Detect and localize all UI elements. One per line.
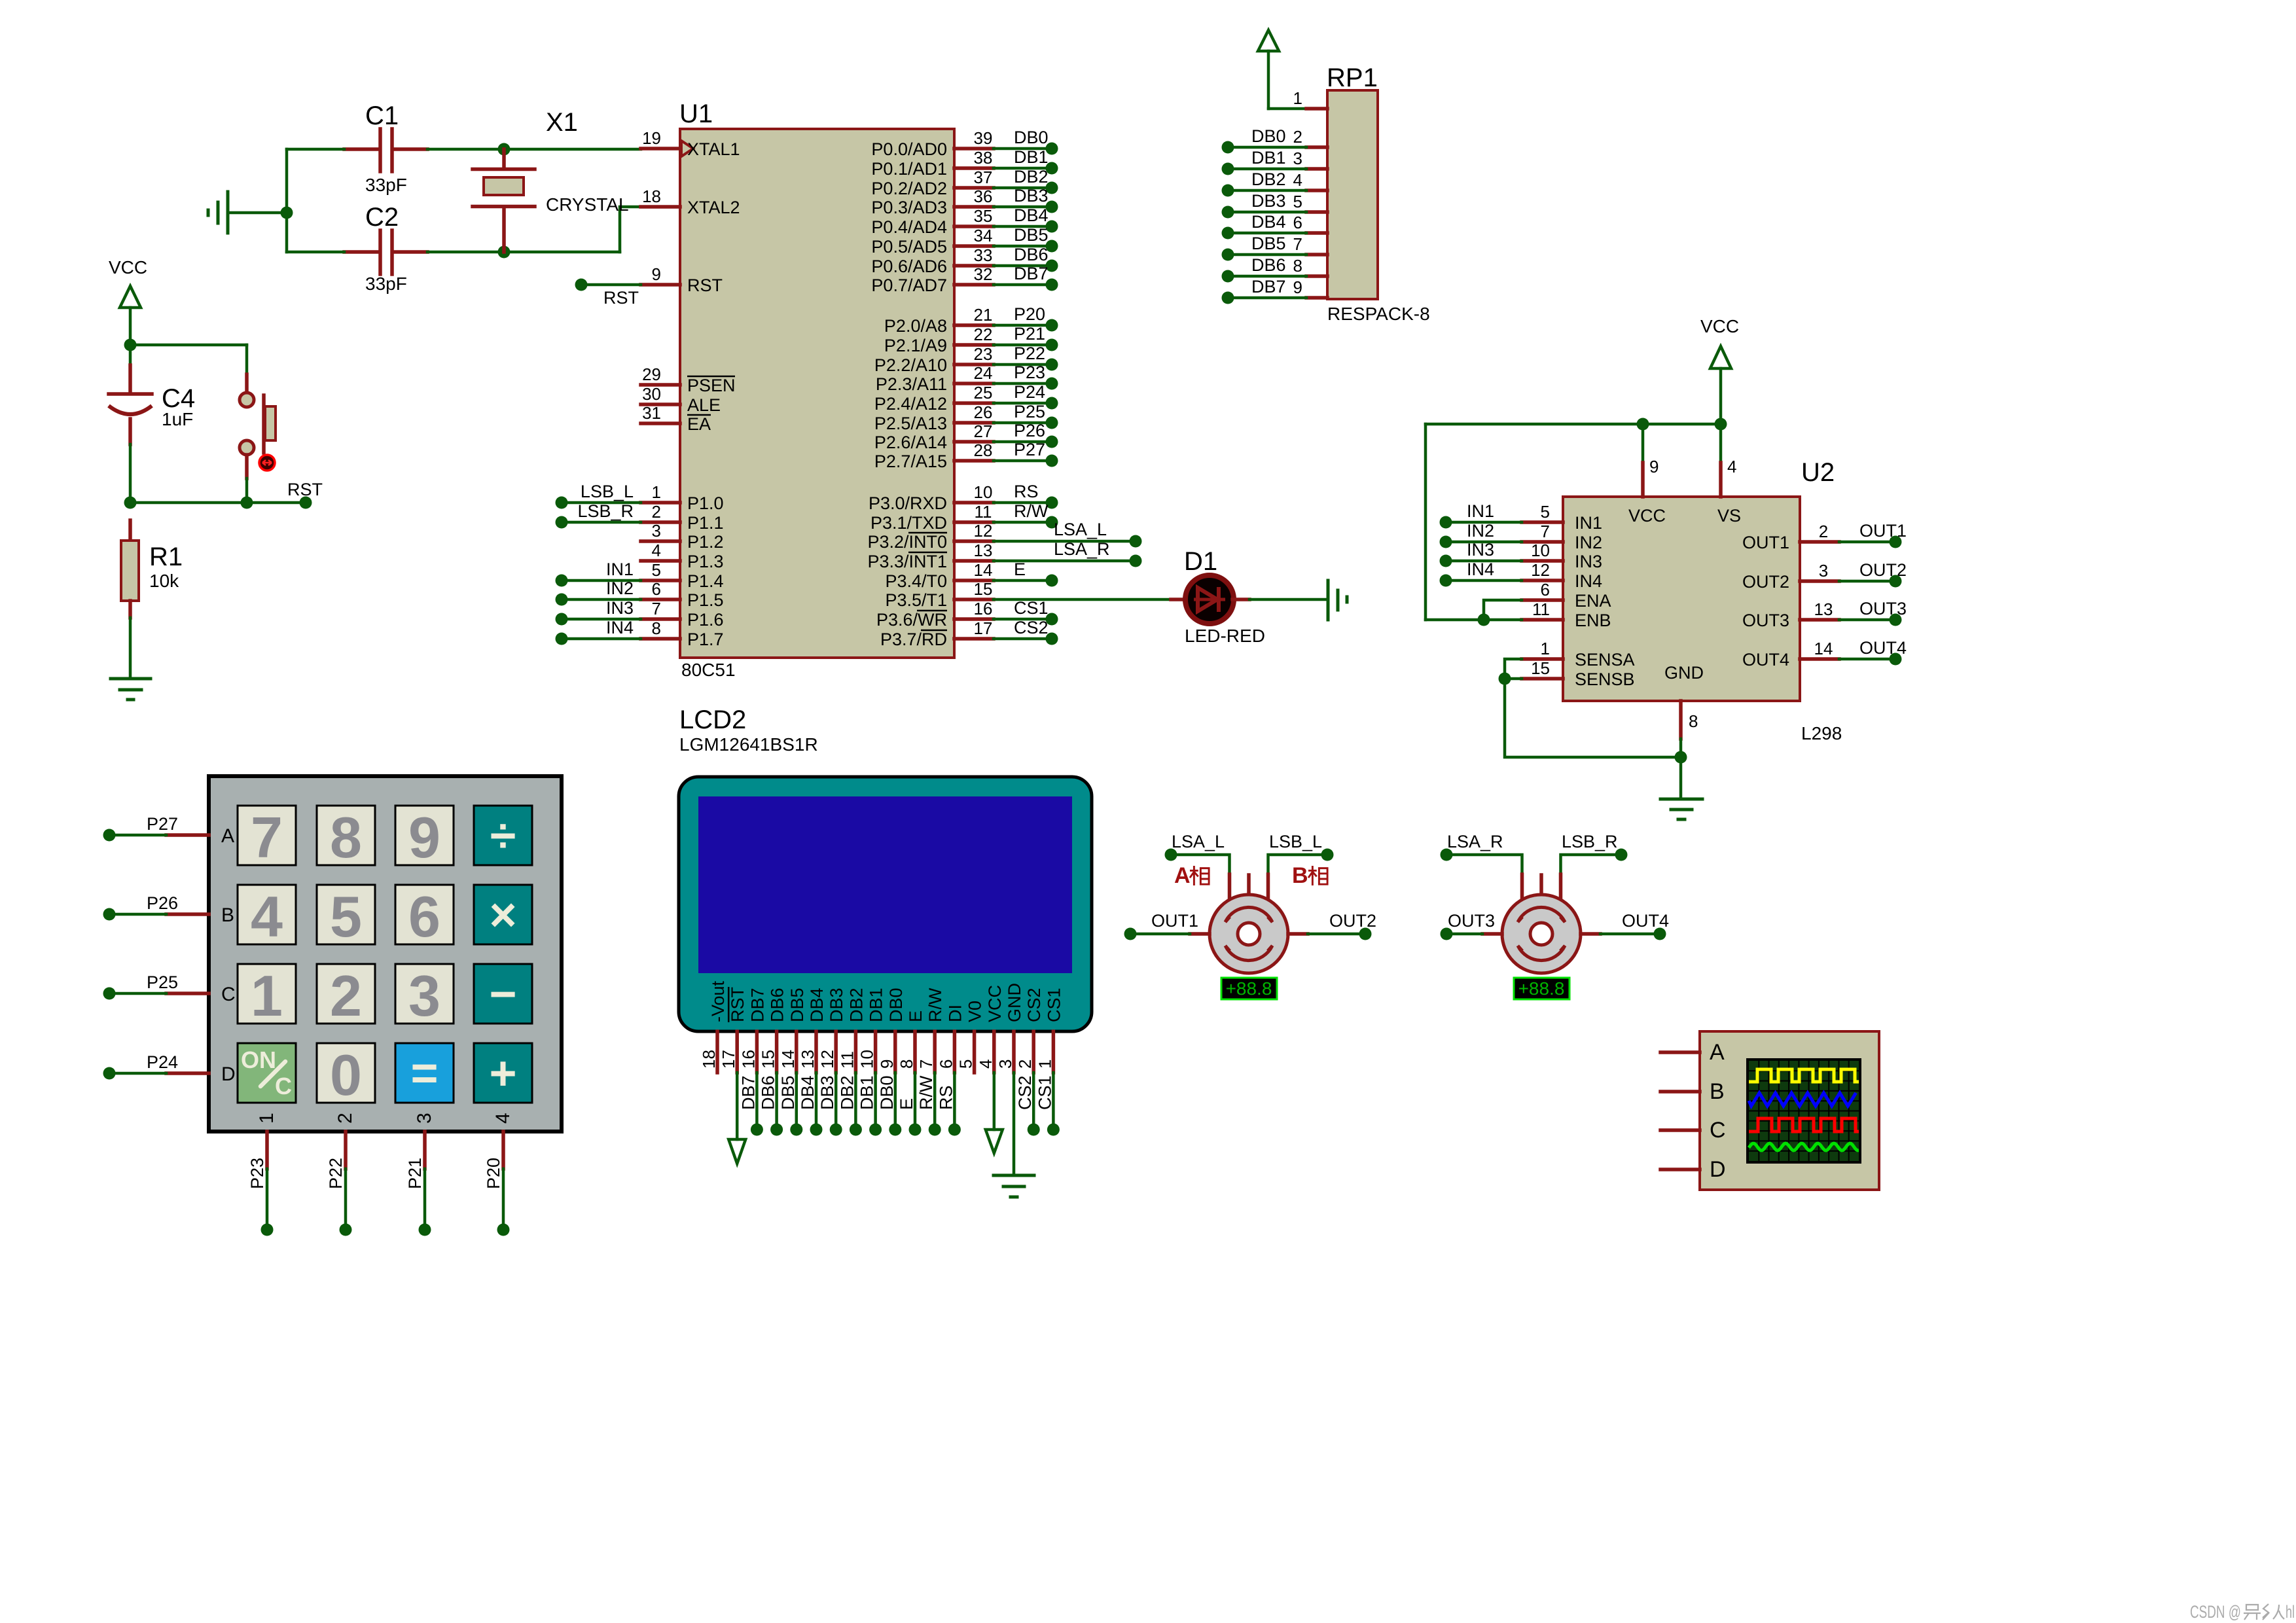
terminal P24 xyxy=(103,1067,116,1080)
svg-text:P1.3: P1.3 xyxy=(687,552,724,571)
U1 pin 37 P0.2/AD2 xyxy=(871,168,994,198)
wire LSA_L from U1 xyxy=(994,520,1136,541)
svg-text:P2.0/A8: P2.0/A8 xyxy=(884,316,947,336)
terminal P27 (U1 side) xyxy=(1046,455,1058,467)
terminal DB2 (LCD side) xyxy=(850,1124,862,1136)
LCD pin 1 CS1 xyxy=(1035,988,1064,1073)
U1 pin 35 P0.4/AD4 xyxy=(871,206,994,237)
svg-text:DB6: DB6 xyxy=(759,1075,778,1110)
wire P25 from U1 xyxy=(994,402,1047,423)
terminal P24 (U1 side) xyxy=(1046,397,1058,410)
svg-text:P1.2: P1.2 xyxy=(687,532,724,552)
svg-text:5: 5 xyxy=(652,560,661,580)
wire VCC to RP1 pin1 xyxy=(1268,107,1306,111)
label A-phase (A相) xyxy=(1174,863,1209,888)
wire LSA_R to motor right xyxy=(1446,855,1522,874)
svg-text:OUT3: OUT3 xyxy=(1742,611,1789,630)
svg-text:R/W: R/W xyxy=(925,988,945,1022)
wire R/W from U1 xyxy=(994,501,1049,522)
svg-text:10: 10 xyxy=(1531,541,1550,560)
wire IN2 to U1 xyxy=(562,579,641,599)
svg-text:P3.1/TXD: P3.1/TXD xyxy=(870,513,947,533)
svg-text:P3.7/RD: P3.7/RD xyxy=(880,630,947,649)
svg-text:P26: P26 xyxy=(1014,421,1045,440)
svg-text:4: 4 xyxy=(1293,170,1302,190)
terminal LSA_L xyxy=(1130,535,1142,548)
svg-text:26: 26 xyxy=(974,402,993,422)
svg-text:RS: RS xyxy=(936,1085,956,1110)
RP1 pin 3 xyxy=(1293,149,1327,169)
LCD pin 17 RST xyxy=(719,987,747,1073)
svg-text:P2.5/A13: P2.5/A13 xyxy=(874,414,947,433)
power VCC arrow (RP1) xyxy=(1258,30,1279,109)
U1 pin 22 P2.1/A9 xyxy=(884,325,994,355)
svg-text:5: 5 xyxy=(1541,502,1550,522)
wire P26 from U1 xyxy=(994,421,1047,442)
svg-text:2: 2 xyxy=(1293,127,1302,147)
svg-text:9: 9 xyxy=(652,264,661,284)
svg-text:DB1: DB1 xyxy=(1014,147,1049,167)
svg-text:3: 3 xyxy=(1819,561,1828,580)
terminal P20 xyxy=(497,1224,510,1236)
U1 pin 2 P1.1 xyxy=(641,502,724,533)
svg-text:P0.3/AD3: P0.3/AD3 xyxy=(871,198,947,217)
LCD pin 9 DB0 xyxy=(877,988,906,1073)
svg-text:LSA_L: LSA_L xyxy=(1054,520,1107,539)
U2 pin 5 IN1 xyxy=(1522,502,1602,533)
LCD pin 10 DB1 xyxy=(857,988,886,1073)
svg-text:C: C xyxy=(1710,1118,1726,1143)
wire OUT4 to motor right xyxy=(1600,911,1669,934)
svg-text:P2.2/A10: P2.2/A10 xyxy=(874,355,947,375)
svg-text:1: 1 xyxy=(652,482,661,502)
wire P24 from U1 xyxy=(994,382,1047,403)
svg-text:P0.5/AD5: P0.5/AD5 xyxy=(871,237,947,257)
RP1 pin 2 xyxy=(1293,127,1327,147)
power VCC (reset net) xyxy=(109,257,147,345)
svg-text:PSEN: PSEN xyxy=(687,376,736,395)
keypad key = xyxy=(395,1043,454,1103)
RP1 pin 4 xyxy=(1293,170,1327,190)
wire DB4 (LCD pin 13) xyxy=(798,1073,817,1130)
RP1 pin 7 xyxy=(1293,234,1327,255)
terminal P21 xyxy=(419,1224,431,1236)
U1 pin 15 P3.5/T1 xyxy=(885,579,994,610)
svg-text:DB7: DB7 xyxy=(747,988,767,1022)
U2 pin 3 OUT2 xyxy=(1742,561,1839,592)
U1 pin 16 P3.6/WR xyxy=(876,599,994,630)
svg-text:5: 5 xyxy=(330,884,362,949)
svg-text:P27: P27 xyxy=(1014,440,1045,459)
LCD pin 13 DB4 xyxy=(798,988,827,1073)
svg-text:12: 12 xyxy=(974,521,993,541)
LCD pin 6 DI xyxy=(936,1005,965,1073)
svg-text:15: 15 xyxy=(1531,658,1550,678)
svg-text:2: 2 xyxy=(1015,1060,1035,1069)
svg-text:C: C xyxy=(221,984,236,1005)
terminal OUT4 (U2 side) xyxy=(1890,653,1902,666)
svg-text:P25: P25 xyxy=(147,972,178,992)
svg-text:E: E xyxy=(906,1010,925,1022)
svg-text:CS1: CS1 xyxy=(1035,1075,1054,1110)
U1 pin 10 P3.0/RXD xyxy=(869,482,994,513)
svg-text:IN1: IN1 xyxy=(606,560,634,579)
wire DB5 to RP1 xyxy=(1228,234,1306,255)
svg-text:IN1: IN1 xyxy=(1575,513,1602,533)
speed display motor left (+88.8) xyxy=(1221,978,1277,999)
node VCC-pin4 junction xyxy=(1715,418,1727,431)
svg-text:2: 2 xyxy=(652,502,661,522)
svg-text:7: 7 xyxy=(251,805,283,870)
terminal RS (U1 side) xyxy=(1046,497,1058,509)
terminal IN4 (U2 side) xyxy=(1440,575,1452,587)
wire CS2 from U1 xyxy=(994,618,1049,639)
svg-text:P2.7/A15: P2.7/A15 xyxy=(874,452,947,471)
svg-text:X1: X1 xyxy=(546,108,578,137)
svg-text:DB6: DB6 xyxy=(768,988,787,1022)
U1 pin 8 P1.7 xyxy=(641,618,724,649)
U1 pin 7 P1.6 xyxy=(641,599,724,630)
svg-text:1: 1 xyxy=(1293,88,1302,108)
terminal P25 (U1 side) xyxy=(1046,417,1058,429)
svg-text:6: 6 xyxy=(936,1060,956,1069)
svg-text:CSDN @: CSDN @ xyxy=(2190,1602,2241,1622)
svg-text:3: 3 xyxy=(414,1113,435,1124)
svg-text:A: A xyxy=(1174,863,1191,888)
U2 pin 14 OUT4 xyxy=(1742,639,1839,669)
svg-text:33pF: 33pF xyxy=(365,175,407,195)
keypad key × xyxy=(474,885,532,944)
terminal DB7 (RP1 side) xyxy=(1222,292,1234,304)
svg-text:RST: RST xyxy=(728,987,747,1022)
svg-text:E: E xyxy=(1014,560,1026,579)
svg-text:L298: L298 xyxy=(1801,723,1842,743)
U2 pin 6 ENA xyxy=(1522,580,1611,611)
svg-text:10k: 10k xyxy=(149,571,179,591)
U1 pin 32 P0.7/AD7 xyxy=(871,264,994,295)
U1 pin 6 P1.5 xyxy=(641,579,724,610)
svg-text:P23: P23 xyxy=(1014,363,1045,382)
svg-text:LSA_R: LSA_R xyxy=(1054,539,1110,559)
speed display motor right (+88.8) xyxy=(1514,978,1570,999)
wire DB6 from U1 xyxy=(994,245,1049,266)
stepper motor left xyxy=(1190,874,1308,973)
svg-text:DB4: DB4 xyxy=(1251,212,1286,232)
svg-text:15: 15 xyxy=(759,1050,778,1069)
svg-text:DB3: DB3 xyxy=(817,1075,837,1110)
wire DB2 to RP1 xyxy=(1228,169,1306,190)
svg-text:1: 1 xyxy=(251,963,283,1028)
svg-text:V0: V0 xyxy=(965,1001,985,1022)
terminal OUT3 xyxy=(1441,928,1453,940)
svg-text:3: 3 xyxy=(408,963,440,1028)
svg-text:P3.2/INT0: P3.2/INT0 xyxy=(867,532,947,552)
svg-text:OUT3: OUT3 xyxy=(1448,911,1495,931)
wire P22 from U1 xyxy=(994,344,1047,365)
svg-text:8: 8 xyxy=(1293,256,1302,276)
wire DB2 from U1 xyxy=(994,167,1049,188)
svg-text:C1: C1 xyxy=(365,101,399,130)
svg-text:×: × xyxy=(489,889,516,942)
svg-text:IN3: IN3 xyxy=(1575,552,1602,571)
svg-text:ALE: ALE xyxy=(687,395,721,415)
wire IN4 to U2 xyxy=(1446,560,1522,580)
svg-text:DB6: DB6 xyxy=(1251,255,1286,275)
svg-text:10: 10 xyxy=(857,1050,877,1069)
svg-text:XTAL2: XTAL2 xyxy=(687,198,740,217)
terminal DB3 (LCD side) xyxy=(830,1124,842,1136)
wire DB5 (LCD pin 14) xyxy=(778,1073,798,1130)
LCD pin 8 E xyxy=(897,1010,925,1073)
keypad key 4 xyxy=(238,884,296,949)
U1 pin 34 P0.5/AD5 xyxy=(871,226,994,257)
terminal LSB_L xyxy=(556,497,568,509)
svg-text:11: 11 xyxy=(975,502,992,522)
svg-text:P20: P20 xyxy=(1014,304,1045,324)
svg-text:LSB_R: LSB_R xyxy=(1562,832,1618,851)
terminal P23 (U1 side) xyxy=(1046,378,1058,390)
terminal DB3 (RP1 side) xyxy=(1222,206,1234,219)
wire DB2 (LCD pin 11) xyxy=(837,1073,857,1130)
svg-text:P21: P21 xyxy=(405,1158,425,1189)
svg-text:U2: U2 xyxy=(1801,458,1835,487)
LCD pin 7 R/W xyxy=(916,988,945,1073)
keypad key ÷ xyxy=(474,806,532,865)
capacitor C2 xyxy=(344,230,427,274)
svg-text:ENB: ENB xyxy=(1575,611,1611,630)
LCD pin 18 -Vout xyxy=(699,980,728,1073)
svg-text:P27: P27 xyxy=(147,814,178,834)
terminal LSB_L xyxy=(1321,849,1334,861)
terminal arrow (LCD VCC) xyxy=(986,1073,1003,1153)
terminal LSB_R xyxy=(1615,849,1628,861)
svg-text:19: 19 xyxy=(642,128,661,148)
U2 pin 9 VCC xyxy=(1628,457,1666,526)
svg-text:33: 33 xyxy=(974,245,993,265)
svg-text:DB3: DB3 xyxy=(827,988,846,1022)
svg-text:P2.3/A11: P2.3/A11 xyxy=(876,374,947,394)
node button-RST junction xyxy=(241,497,253,509)
svg-text:8: 8 xyxy=(897,1060,916,1069)
wire DB1 to RP1 xyxy=(1228,148,1306,169)
terminal P22 (U1 side) xyxy=(1046,359,1058,371)
svg-text:9: 9 xyxy=(408,805,440,870)
wire P27 from U1 xyxy=(994,440,1047,461)
U1 80C51 body xyxy=(680,129,954,658)
svg-text:RST: RST xyxy=(287,480,323,499)
U1 pin 5 P1.4 xyxy=(641,560,724,591)
terminal DB6 (U1 side) xyxy=(1046,260,1058,272)
terminal OUT4 xyxy=(1654,928,1666,940)
svg-text:=: = xyxy=(410,1048,438,1100)
svg-text:12: 12 xyxy=(1531,560,1550,580)
svg-text:25: 25 xyxy=(974,383,993,402)
svg-text:P26: P26 xyxy=(147,893,178,913)
svg-text:DB1: DB1 xyxy=(857,1075,877,1110)
svg-text:IN2: IN2 xyxy=(1575,533,1602,552)
terminal R/W (U1 side) xyxy=(1046,516,1058,529)
svg-text:DB4: DB4 xyxy=(807,988,827,1022)
wire SENSB xyxy=(1505,677,1522,681)
U1 pin 39 P0.0/AD0 xyxy=(871,128,994,159)
U1 pin 14 P3.4/T0 xyxy=(885,560,994,591)
terminal DB0 (U1 side) xyxy=(1046,143,1058,155)
svg-text:P0.2/AD2: P0.2/AD2 xyxy=(871,179,947,198)
terminal P26 (U1 side) xyxy=(1046,436,1058,448)
U2 pin 10 IN3 xyxy=(1522,541,1602,571)
LCD2 screen xyxy=(698,796,1072,973)
U2 pin 12 IN4 xyxy=(1522,560,1602,591)
pin XTAL1 clock marker xyxy=(681,141,693,156)
svg-text:P2.1/A9: P2.1/A9 xyxy=(884,336,947,355)
wire crystal left rail xyxy=(285,149,289,252)
keypad key 9 xyxy=(395,805,454,870)
svg-text:E: E xyxy=(897,1098,916,1110)
svg-text:OUT2: OUT2 xyxy=(1742,572,1789,592)
U2 L298 body xyxy=(1563,497,1800,701)
U2 pin 4 VS xyxy=(1717,457,1741,526)
svg-text:8: 8 xyxy=(652,618,661,638)
terminal OUT2 (U2 side) xyxy=(1890,575,1902,588)
U1 pin 38 P0.1/AD1 xyxy=(871,148,994,179)
svg-text:6: 6 xyxy=(408,884,440,949)
svg-text:R1: R1 xyxy=(149,543,183,571)
U2 pin 7 IN2 xyxy=(1522,522,1602,552)
wire DB7 to RP1 xyxy=(1228,277,1306,298)
U1 pin 26 P2.5/A13 xyxy=(874,402,994,433)
terminal arrow (LCD RST) xyxy=(728,1073,745,1164)
terminal P26 xyxy=(103,908,116,921)
svg-text:LSB_L: LSB_L xyxy=(1269,832,1322,851)
svg-text:A: A xyxy=(221,825,234,847)
ground (LCD GND pin) xyxy=(994,1073,1034,1197)
svg-text:P1.1: P1.1 xyxy=(687,513,724,533)
pushbutton reset switch xyxy=(240,374,276,503)
svg-text:32: 32 xyxy=(974,264,993,284)
svg-text:10: 10 xyxy=(974,482,993,502)
svg-text:17: 17 xyxy=(719,1050,738,1069)
svg-text:VCC: VCC xyxy=(1700,316,1739,336)
node VCC junction xyxy=(124,339,137,351)
terminal E (U1 side) xyxy=(1046,575,1058,587)
svg-text:P22: P22 xyxy=(326,1158,346,1189)
terminal OUT1 xyxy=(1124,928,1137,940)
capacitor C4 (polarized) xyxy=(109,365,152,503)
wire ENA jog xyxy=(1484,600,1522,620)
oscilloscope pin C xyxy=(1660,1118,1726,1143)
keypad body xyxy=(209,776,562,1132)
oscilloscope pin A xyxy=(1660,1040,1725,1065)
svg-text:P3.6/WR: P3.6/WR xyxy=(876,610,947,630)
svg-text:+88.8: +88.8 xyxy=(1226,978,1272,999)
svg-text:P21: P21 xyxy=(1014,324,1045,344)
wire RS (LCD pin 6) xyxy=(936,1073,956,1130)
svg-text:P23: P23 xyxy=(247,1158,267,1189)
svg-text:IN2: IN2 xyxy=(606,579,634,598)
U2 pin 8 GND xyxy=(1664,663,1704,799)
svg-text:DB5: DB5 xyxy=(778,1075,798,1110)
terminal P27 xyxy=(103,829,116,842)
svg-text:14: 14 xyxy=(778,1050,798,1069)
wire P20 from U1 xyxy=(994,304,1047,325)
svg-text:P24: P24 xyxy=(147,1052,178,1072)
svg-text:DB4: DB4 xyxy=(798,1075,817,1110)
svg-text:33pF: 33pF xyxy=(365,274,407,294)
svg-text:D1: D1 xyxy=(1184,547,1217,576)
terminal LSA_R xyxy=(1130,555,1142,567)
svg-text:LED-RED: LED-RED xyxy=(1185,626,1265,646)
terminal DB0 (LCD side) xyxy=(889,1124,901,1136)
svg-text:13: 13 xyxy=(974,541,993,560)
wire DB0 (LCD pin 9) xyxy=(877,1073,897,1130)
svg-text:37: 37 xyxy=(974,168,993,187)
svg-text:hl: hl xyxy=(2286,1602,2295,1622)
svg-text:0: 0 xyxy=(330,1043,362,1107)
wire P23 to keypad xyxy=(247,1132,267,1224)
keypad key 3 xyxy=(395,963,454,1028)
svg-text:2: 2 xyxy=(1819,522,1828,541)
wire LSB_R to motor right xyxy=(1561,855,1622,874)
svg-text:P3.3/INT1: P3.3/INT1 xyxy=(867,552,947,571)
terminal DB2 (RP1 side) xyxy=(1222,185,1234,197)
svg-text:DB3: DB3 xyxy=(1014,186,1049,205)
svg-text:IN3: IN3 xyxy=(606,598,634,618)
svg-text:IN4: IN4 xyxy=(1467,560,1494,579)
svg-text:24: 24 xyxy=(974,363,993,383)
svg-text:6: 6 xyxy=(1293,213,1302,232)
waveform C (red square) xyxy=(1749,1118,1859,1132)
wire P23 from U1 xyxy=(994,363,1047,383)
wire RST to U1 pin9 xyxy=(581,285,641,308)
terminal RST (U1) xyxy=(575,279,588,291)
svg-text:P20: P20 xyxy=(484,1158,503,1189)
wire DB3 from U1 xyxy=(994,186,1049,207)
keypad key 0 xyxy=(317,1043,375,1107)
node crystal bottom junction xyxy=(498,246,511,259)
terminal DB1 (U1 side) xyxy=(1046,162,1058,175)
svg-text:18: 18 xyxy=(699,1050,719,1069)
svg-text:IN3: IN3 xyxy=(1467,540,1494,560)
terminal IN3 (U2 side) xyxy=(1440,555,1452,567)
LCD pin 4 VCC xyxy=(976,985,1005,1073)
svg-text:DI: DI xyxy=(945,1005,965,1022)
svg-text:OUT1: OUT1 xyxy=(1151,911,1198,931)
LCD pin 14 DB5 xyxy=(778,988,807,1073)
svg-text:LSA_L: LSA_L xyxy=(1172,832,1225,851)
RP1 RESPACK-8 body xyxy=(1327,90,1378,299)
U2 pin 1 SENSA xyxy=(1522,639,1635,669)
button actuator marker xyxy=(259,455,275,471)
svg-text:OUT1: OUT1 xyxy=(1742,533,1789,552)
wire D1 to ground xyxy=(1249,598,1327,601)
wire E (LCD pin 8) xyxy=(897,1073,916,1130)
wire P21 to keypad xyxy=(405,1132,425,1224)
svg-text:4: 4 xyxy=(976,1060,996,1069)
wire DB0 to RP1 xyxy=(1228,126,1306,147)
wire SENSA jog xyxy=(1505,659,1522,679)
svg-text:RST: RST xyxy=(687,276,723,295)
svg-text:14: 14 xyxy=(974,560,993,580)
svg-text:18: 18 xyxy=(642,187,661,206)
terminal P21 (U1 side) xyxy=(1046,339,1058,351)
svg-text:27: 27 xyxy=(974,421,993,441)
LCD2 body xyxy=(679,777,1092,1031)
wire DB1 (LCD pin 10) xyxy=(857,1073,877,1130)
terminal RST (left) xyxy=(300,497,312,509)
terminal CS1 (LCD side) xyxy=(1047,1124,1060,1136)
svg-text:22: 22 xyxy=(974,325,993,344)
svg-text:2: 2 xyxy=(330,963,362,1028)
